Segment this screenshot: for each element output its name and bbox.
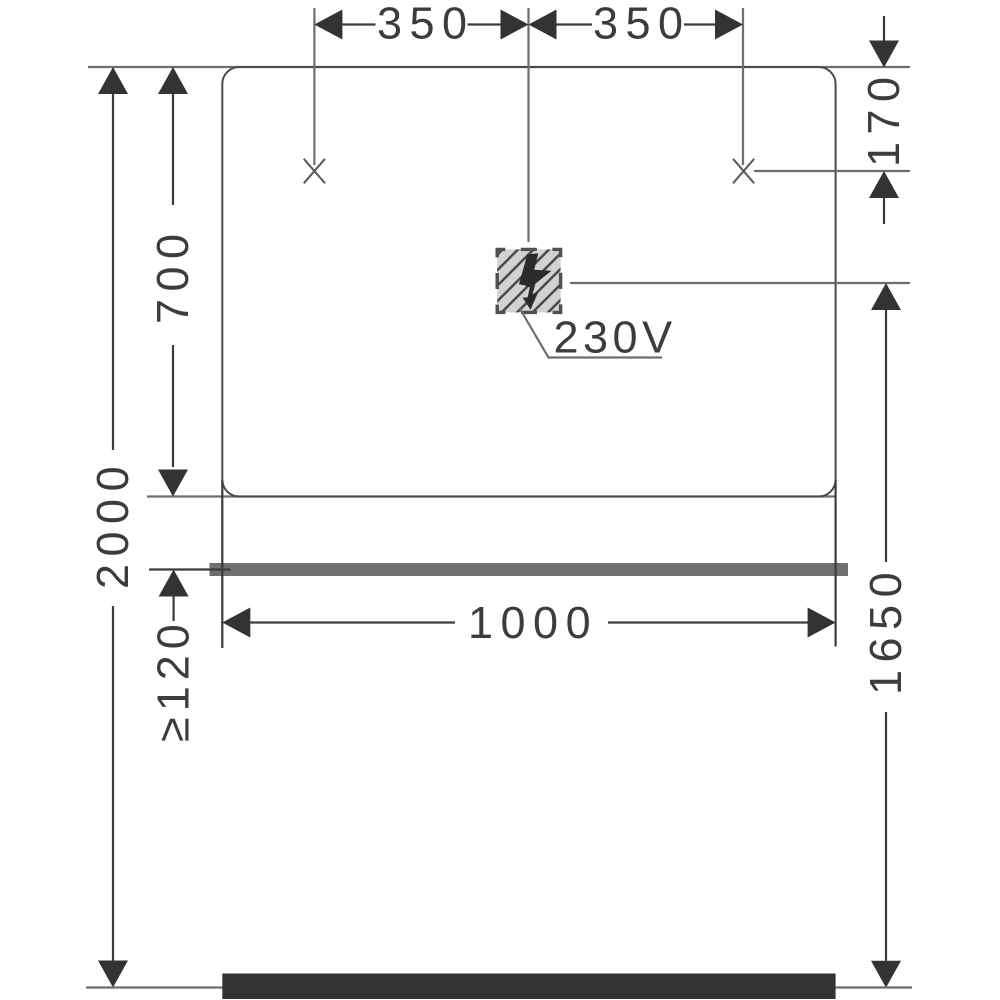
dimension 170 [883,16,885,42]
mirror outline [222,67,835,497]
dimension >=120 [159,570,189,597]
svg-text:700: 700 [147,226,198,324]
svg-text:350: 350 [377,0,475,49]
svg-text:170: 170 [858,69,909,167]
mirror bottom reference line [147,495,836,497]
tick line right 350 [742,8,744,165]
svg-text:≥120: ≥120 [148,618,199,742]
mark X right [733,159,754,184]
svg-text:1000: 1000 [468,597,598,648]
dimension 350 left: arrows and stems [314,10,342,40]
box fill [497,249,560,312]
svg-text:2000: 2000 [87,459,138,589]
dimension 350 right: arrows and stems [529,10,557,40]
electrical outlet box 230V [432,230,646,320]
electrical level reference line [570,282,910,284]
svg-text:230V: 230V [554,312,677,363]
dashed border [497,249,560,312]
lightning bolt [519,253,552,309]
X level reference line right [754,170,910,172]
dimension 700 [158,67,188,94]
floor reference line [86,986,912,988]
floor bar [222,974,835,1000]
dimension 1000 extension lines [221,480,223,648]
shelf level reference line [149,568,231,570]
dimension 1000 [222,608,250,638]
shelf bar [210,563,849,576]
svg-text:1650: 1650 [860,565,911,695]
dimension 1650 [871,283,901,310]
tick line left 350 [313,8,315,165]
top reference line (mirror top level) [88,66,910,68]
mark X left [304,159,325,184]
leader line to 230V [520,308,663,358]
tick line center 350 [527,8,529,242]
svg-text:350: 350 [593,0,691,49]
dimension 2000 [98,67,128,94]
